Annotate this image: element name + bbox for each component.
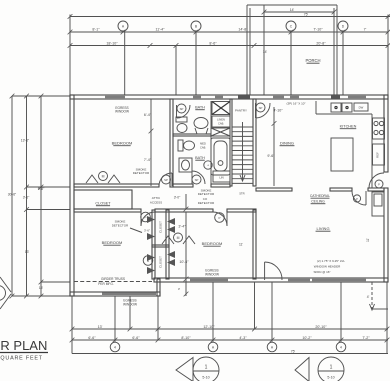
hall closet box: [74, 190, 132, 209]
svg-text:P: P: [378, 182, 380, 186]
svg-text:7': 7': [364, 28, 367, 32]
porch top edge: [247, 4, 337, 6]
window bedroom3 bottom: [190, 279, 228, 281]
bottom bubble A: [208, 342, 218, 352]
svg-text:3'-6": 3'-6": [144, 228, 150, 232]
porch post right: [331, 95, 340, 99]
svg-text:4: 4: [114, 345, 116, 349]
bath1 chase box: [211, 128, 230, 136]
exterior step wall: [157, 279, 160, 296]
svg-text:13': 13': [25, 250, 30, 254]
bottom dim row2: [72, 339, 388, 341]
svg-text:PANTRY: PANTRY: [235, 109, 247, 113]
svg-text:P: P: [218, 216, 220, 220]
porch right edge: [333, 8, 335, 95]
bath column divider wall: [210, 101, 212, 184]
living bottom door: [264, 262, 266, 280]
dim row 3 top: [70, 45, 388, 47]
bedroom2 door: [140, 212, 142, 226]
fireplace: [372, 192, 384, 216]
svg-text:BATH: BATH: [195, 156, 205, 160]
svg-text:11': 11': [366, 238, 370, 242]
bottom dim row1: [72, 328, 388, 330]
svg-text:LIN: LIN: [219, 175, 223, 179]
window bath top 2: [215, 96, 223, 98]
dining dim line: [273, 107, 275, 186]
window dining top: [273, 96, 284, 98]
svg-text:3'-6": 3'-6": [23, 195, 30, 199]
grid line D vertical: [342, 31, 344, 96]
bath1 door: [176, 105, 178, 118]
exterior right wall upper: [384, 95, 388, 172]
svg-text:75': 75': [304, 13, 309, 17]
svg-text:7'-2": 7'-2": [362, 336, 370, 340]
bedroom1 ceiling fan: [99, 172, 108, 181]
left dim extension top: [12, 95, 70, 97]
svg-text:11': 11': [239, 242, 243, 246]
exterior bottom wall right: [154, 278, 388, 282]
svg-text:BEDROOM: BEDROOM: [112, 141, 133, 146]
porch inner line: [263, 5, 265, 95]
bedroom3 dim line: [185, 212, 187, 296]
bedroom3 ceiling fan: [174, 233, 183, 242]
svg-text:PER MFG.: PER MFG.: [98, 282, 114, 286]
closet divider: [152, 245, 169, 247]
dim line top overall: [70, 16, 390, 18]
window living bottom 2: [312, 279, 366, 281]
svg-text:DETECTOR: DETECTOR: [198, 201, 215, 205]
bottom ext left edge: [71, 296, 73, 354]
grid bubble D: [338, 21, 348, 31]
porch post left: [238, 95, 250, 99]
svg-text:LIVING: LIVING: [316, 226, 329, 231]
top-right corner extension line: [387, 15, 389, 96]
kitchen sink: [331, 103, 341, 112]
svg-text:5-10: 5-10: [202, 376, 209, 380]
dining patio door: [255, 103, 257, 118]
bath2 tub: [211, 138, 230, 175]
hall bottom wall seg3: [227, 209, 256, 212]
bath2 door: [192, 171, 205, 184]
svg-text:CLOSET: CLOSET: [159, 256, 163, 268]
bed2 closet left wall: [152, 210, 155, 279]
svg-text:20'-10": 20'-10": [315, 325, 327, 329]
svg-text:WINDOW: WINDOW: [205, 273, 219, 277]
linen closet: [213, 171, 230, 182]
porch left edge: [246, 5, 248, 95]
bottom bubble B: [267, 342, 277, 352]
kitchen range: [373, 118, 385, 139]
bath2 vanity: [179, 158, 192, 172]
bottom bubble 4b: [336, 342, 346, 352]
grid line C vertical: [290, 31, 292, 96]
section marker left edge: [0, 277, 11, 309]
bath2 bottom wall segs: [173, 184, 193, 187]
grid line A vertical: [124, 31, 126, 96]
window dining top 2: [290, 96, 299, 98]
grid bubble B: [191, 21, 201, 31]
kitchen exterior door: [370, 187, 384, 189]
svg-text:20'-8": 20'-8": [316, 41, 326, 45]
svg-text:1: 1: [205, 365, 208, 371]
svg-text:(2) 1.75" X 9.25" LVL: (2) 1.75" X 9.25" LVL: [317, 259, 345, 263]
stair treads: [232, 126, 253, 128]
bath2 light: [204, 161, 212, 169]
living half wall 1: [256, 188, 292, 191]
svg-text:30'-6": 30'-6": [8, 192, 17, 196]
svg-text:4: 4: [340, 345, 342, 349]
svg-text:CAB.: CAB.: [200, 145, 206, 149]
bottom ext x115: [114, 296, 116, 342]
svg-text:DETECTOR: DETECTOR: [112, 223, 129, 227]
closet lower door tag: [143, 256, 153, 266]
svg-text:SP: SP: [259, 106, 263, 110]
svg-text:8'-6": 8'-6": [209, 41, 217, 45]
svg-text:FLOOR PLAN: FLOOR PLAN: [0, 338, 47, 353]
svg-text:18'-10": 18'-10": [106, 41, 118, 45]
bottom ext x158: [157, 296, 159, 340]
svg-text:P: P: [356, 197, 358, 201]
svg-text:9'-6": 9'-6": [267, 154, 275, 158]
left dim line mid: [26, 96, 28, 296]
svg-text:4'-10": 4'-10": [273, 108, 283, 112]
svg-text:SP: SP: [164, 178, 168, 182]
svg-text:KITCHEN: KITCHEN: [340, 125, 357, 129]
bath1 linen cabinet: [212, 116, 230, 127]
bedroom1 dim line: [150, 99, 152, 186]
svg-text:CLOSET: CLOSET: [95, 202, 111, 206]
svg-text:4': 4': [367, 295, 370, 299]
svg-text:6'-8": 6'-8": [38, 187, 45, 191]
kitchen island: [331, 138, 353, 171]
bottom ext x254: [254, 282, 256, 329]
svg-text:1: 1: [330, 365, 333, 371]
svg-text:75': 75': [291, 349, 296, 353]
living 4ft leader: [371, 282, 373, 309]
svg-text:WINDOW: WINDOW: [115, 110, 129, 114]
bottom ext x341: [340, 282, 342, 342]
left dim extension hall: [27, 186, 71, 188]
svg-text:CEILING: CEILING: [311, 200, 325, 204]
bottom ext x213: [212, 282, 214, 342]
svg-text:14': 14': [290, 8, 295, 12]
svg-text:5TR: 5TR: [239, 191, 244, 195]
svg-text:M: M: [177, 236, 180, 240]
bath2 toilet: [178, 140, 183, 151]
svg-text:WINDOW HEADER: WINDOW HEADER: [314, 265, 341, 269]
porch dim 14ft: [264, 11, 334, 13]
bottom dim overall 75ft: [72, 353, 388, 355]
svg-text:SQUARE FEET: SQUARE FEET: [0, 356, 43, 362]
hall dim: [185, 194, 187, 209]
living half wall 3: [368, 188, 384, 191]
svg-text:SP: SP: [180, 107, 184, 111]
svg-text:PORCH: PORCH: [305, 58, 320, 63]
grid line B vertical: [195, 31, 197, 96]
svg-text:BEDROOM: BEDROOM: [202, 241, 223, 246]
svg-text:10'-6": 10'-6": [179, 260, 189, 264]
kitchen top counter: [315, 101, 317, 114]
svg-text:8'-1": 8'-1": [92, 28, 100, 32]
section marker 1: [176, 358, 193, 381]
svg-text:6'-6": 6'-6": [88, 336, 96, 340]
window bedroom2 bottom: [102, 292, 156, 295]
svg-text:CAB.: CAB.: [218, 121, 224, 125]
svg-text:4'-3": 4'-3": [239, 336, 247, 340]
svg-text:ACCESS: ACCESS: [150, 200, 162, 204]
hall bottom wall seg1: [74, 209, 141, 212]
svg-text:M: M: [102, 175, 105, 179]
closet bifold marks: [147, 216, 155, 223]
window bath top: [193, 96, 201, 98]
svg-text:DETECTOR: DETECTOR: [198, 192, 215, 196]
bath1 pedestal sink: [194, 118, 208, 129]
svg-text:MED: MED: [200, 142, 206, 146]
living left wall: [253, 210, 256, 279]
grid line at 176: [175, 46, 177, 96]
kitchen refrigerator: [373, 144, 385, 165]
bed2 closet right wall: [166, 210, 169, 279]
svg-text:3'-0": 3'-0": [174, 196, 181, 200]
left dim line inner: [40, 96, 42, 296]
svg-text:3'-4": 3'-4": [178, 225, 186, 229]
svg-text:6'-6": 6'-6": [132, 336, 140, 340]
svg-text:P: P: [144, 216, 146, 220]
hall bottom wall seg2: [155, 209, 213, 212]
svg-text:CLOSET: CLOSET: [159, 221, 163, 233]
svg-text:13'-6": 13'-6": [21, 139, 30, 143]
girder truss dashed line: [74, 281, 152, 283]
bedroom1 right wall: [170, 99, 173, 187]
kitchen living door: [365, 191, 367, 205]
svg-text:+: +: [207, 163, 209, 167]
left dim extension girder: [41, 281, 70, 283]
bottom ext x272: [271, 282, 273, 342]
window living bottom 1: [288, 279, 310, 281]
window kitchen sink: [348, 96, 366, 98]
svg-text:7'-4": 7'-4": [144, 158, 152, 162]
svg-text:7'-10": 7'-10": [313, 28, 323, 32]
svg-text:(3P) 16" X 10": (3P) 16" X 10": [287, 102, 306, 106]
bottom bubble 4a: [110, 342, 120, 352]
bath1 toilet: [176, 117, 187, 122]
bottom ext right edge: [386, 282, 388, 354]
living half wall 2: [330, 188, 352, 191]
grid bubble C: [286, 21, 296, 31]
left dim line outer: [11, 96, 13, 296]
dim row 2 top: [70, 31, 388, 33]
grid bubble A: [118, 21, 128, 31]
svg-text:DETECTOR: DETECTOR: [133, 171, 150, 175]
svg-text:DINING: DINING: [280, 141, 294, 146]
svg-text:11'-4": 11'-4": [156, 28, 166, 32]
svg-text:SP: SP: [195, 178, 199, 182]
bath1 bath2 divider wall: [173, 134, 211, 136]
window bedroom1 top: [105, 96, 125, 98]
svg-text:BATH: BATH: [195, 106, 205, 110]
kitchen dishwasher: [354, 103, 368, 111]
svg-text:14': 14': [263, 50, 268, 54]
svg-text:DW: DW: [359, 106, 364, 110]
bottom ext x130: [129, 296, 131, 329]
svg-text:10'-2": 10'-2": [302, 336, 312, 340]
section marker 2: [295, 358, 309, 381]
svg-text:REF: REF: [376, 152, 380, 158]
bedroom1 bottom wall: [74, 184, 159, 187]
bedroom3 door: [226, 212, 228, 226]
svg-text:BEDROOM: BEDROOM: [102, 240, 123, 245]
exterior right wall lower: [384, 188, 388, 282]
exterior left wall: [70, 95, 74, 296]
kitchen right counter: [371, 114, 373, 188]
svg-text:GIRDER TRUSS: GIRDER TRUSS: [101, 277, 125, 281]
stair arrow: [242, 122, 244, 180]
svg-text:15': 15': [39, 286, 44, 290]
svg-text:6'-4": 6'-4": [144, 113, 152, 117]
svg-text:12'-10": 12'-10": [203, 325, 215, 329]
svg-text:5-10: 5-10: [327, 376, 334, 380]
exterior top wall: [70, 95, 388, 99]
bath1 shower: [212, 102, 230, 115]
svg-text:SPAN @ 16": SPAN @ 16": [313, 270, 330, 274]
stairs left wall: [230, 99, 232, 186]
exterior bottom wall left wing: [70, 292, 160, 296]
stairs right wall upper: [253, 99, 256, 186]
svg-text:CATHEDRAL: CATHEDRAL: [310, 194, 330, 198]
left dim extension bottom: [12, 295, 70, 297]
svg-text:LINEN: LINEN: [217, 117, 225, 121]
svg-text:13': 13': [98, 325, 103, 329]
top-left corner extension line: [69, 15, 71, 96]
bedroom1 door: [171, 173, 173, 186]
left dim extension hall2: [27, 209, 71, 211]
svg-text:8'-10": 8'-10": [181, 336, 191, 340]
